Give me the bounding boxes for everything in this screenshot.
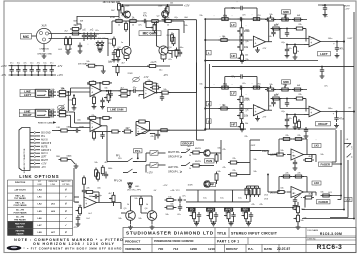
svg-text:DATE: DATE	[264, 247, 272, 251]
connector XLR mic	[32, 24, 52, 51]
resistor R46	[292, 88, 303, 91]
wire q4 emitter	[161, 55, 166, 63]
svg-text:-17V: -17V	[163, 75, 168, 77]
capacitor C6 47u	[142, 15, 149, 24]
ground diode	[98, 48, 103, 53]
label -17V rail L	[1, 74, 63, 77]
wire REV gnd	[246, 219, 251, 222]
ground right1	[285, 123, 290, 128]
resistor R51c	[122, 126, 133, 133]
pot VR10 mid right	[265, 85, 276, 91]
pot VR5bb	[238, 121, 244, 132]
capacitor C REV	[249, 212, 253, 219]
net label RIGHT in	[270, 192, 279, 195]
pot VR15 pan R	[294, 213, 301, 229]
svg-text:REV: REV	[243, 208, 248, 211]
wire right row2	[271, 98, 280, 100]
pot VR12 pfl	[76, 205, 82, 216]
wire bus x341	[338, 130, 342, 200]
wire channel bus y60	[205, 60, 318, 62]
label LK eqb2	[206, 101, 211, 106]
op-amp U7 right out	[309, 106, 321, 117]
svg-text:700: 700	[158, 247, 163, 251]
table row LK6	[14, 215, 68, 221]
label PAN	[205, 159, 215, 163]
label LK5 note	[127, 190, 142, 192]
resistor R55	[140, 196, 143, 207]
svg-text:LEFT: LEFT	[320, 52, 328, 56]
resistor R38 fb left	[294, 27, 305, 30]
wire bus x336	[332, 130, 336, 162]
resistor R14	[172, 35, 175, 46]
wire eqa top loop	[224, 8, 258, 20]
capacitor C15b	[49, 93, 56, 97]
capacitor C30	[285, 115, 289, 124]
note line1	[14, 238, 124, 242]
capacitor C4 mic	[92, 33, 96, 40]
junction bus dots	[204, 39, 355, 130]
svg-text:+48 / 17V: +48 / 17V	[170, 190, 180, 192]
svg-text:1208: 1208	[190, 247, 197, 251]
svg-text:10k: 10k	[244, 45, 249, 49]
svg-text:GROUP: GROUP	[182, 142, 192, 146]
label PFL ON	[114, 181, 123, 183]
wire u3b out	[148, 129, 207, 131]
wire lr join	[68, 112, 90, 128]
op-amp U4	[253, 36, 265, 47]
wire to r51	[52, 130, 61, 132]
op-amp U10 pfl	[84, 197, 97, 208]
resistor R59 mute	[186, 149, 201, 154]
svg-text:-17V: -17V	[73, 227, 78, 229]
svg-text:22-07-97: 22-07-97	[277, 247, 290, 251]
wire pfl in	[83, 186, 85, 198]
wire eqb top loop	[224, 77, 258, 89]
capacitor C16b	[49, 113, 56, 117]
capacitor C23b left	[285, 28, 289, 37]
resistor R9	[163, 16, 174, 23]
logo studiomaster	[7, 246, 22, 251]
resistor R51e	[159, 129, 170, 132]
svg-text:100R: 100R	[188, 185, 193, 187]
svg-text:RIGHT: RIGHT	[23, 113, 32, 117]
capacitor C10 decouple	[16, 63, 20, 76]
ground u4	[255, 47, 267, 52]
svg-text:LEFT: LEFT	[24, 93, 31, 97]
pin 7 AUX 4	[30, 152, 48, 155]
pin 10 +17V	[30, 163, 47, 166]
svg-text:PFL: PFL	[116, 155, 121, 157]
wire phantom feed	[77, 16, 119, 29]
capacitor C25 out	[333, 41, 344, 52]
label +17V rail L	[1, 65, 63, 68]
wire vr4a	[241, 18, 243, 26]
resistor R u1g	[93, 95, 96, 106]
label LF eqa	[230, 23, 236, 27]
pin 11 -17V	[30, 166, 46, 169]
svg-text:LINK: LINK	[37, 184, 42, 186]
svg-text:-17V: -17V	[144, 77, 149, 79]
label LK eqa	[206, 50, 211, 55]
resistor R10 top	[166, 4, 169, 15]
op-amp U2 line right	[90, 120, 102, 132]
resistor Rmb	[240, 102, 243, 113]
svg-text:PAN PRE: PAN PRE	[16, 230, 25, 233]
svg-text:PRE FADER: PRE FADER	[14, 218, 26, 221]
switch insert B	[347, 154, 353, 158]
wire pan wires	[200, 153, 214, 185]
resistor R12	[113, 37, 116, 48]
wire diode gnd	[98, 48, 102, 50]
label LEFT out	[318, 52, 331, 56]
capacitor C AUX1	[214, 212, 218, 219]
title company	[126, 231, 214, 236]
svg-text:RIGHT: RIGHT	[318, 122, 328, 126]
resistor R33b	[251, 86, 262, 89]
component value labels 2	[56, 6, 353, 221]
svg-text:RIGHT PFL: RIGHT PFL	[168, 152, 181, 154]
svg-text:R1C6-3: R1C6-3	[317, 244, 342, 251]
label LK6	[312, 181, 321, 185]
svg-text:GROUP-R: GROUP-R	[168, 157, 179, 159]
svg-text:XLR: XLR	[41, 24, 46, 28]
wire right bus B	[353, 12, 355, 196]
title drn	[226, 247, 239, 251]
resistor R19v	[73, 94, 76, 107]
table row LK4	[14, 188, 68, 192]
label PFL	[134, 149, 143, 153]
wire mic gain row	[112, 20, 165, 22]
wire pfl feed	[107, 132, 123, 162]
ground left2	[293, 55, 298, 60]
resistor R33a	[251, 18, 262, 21]
component value labels	[51, 2, 333, 222]
resistor R15	[175, 48, 178, 59]
switch line sense	[137, 130, 155, 140]
svg-text:PRODUCT: PRODUCT	[125, 239, 140, 243]
resistor R5 phantom	[70, 32, 81, 35]
resistor R34a	[219, 35, 230, 42]
diode D1	[96, 41, 100, 48]
resistor R36	[292, 18, 303, 21]
label MIC GAIN	[139, 31, 161, 36]
resistor R24	[119, 89, 130, 92]
svg-text:PFL: PFL	[135, 149, 141, 153]
resistor R3 input	[69, 36, 72, 47]
resistor R17	[57, 87, 68, 94]
svg-text:+17V: +17V	[345, 8, 351, 10]
label FD	[188, 208, 195, 212]
wire eqa row3	[204, 60, 246, 62]
capacitor C39	[104, 172, 108, 179]
svg-text:+: +	[145, 92, 147, 96]
wire left row1	[271, 19, 307, 21]
wire bus x209	[209, 64, 211, 129]
resistor R18	[57, 94, 68, 97]
wire mid link A	[285, 14, 287, 20]
connector 26-way IDC	[19, 122, 56, 174]
capacitor C FD	[197, 212, 201, 219]
connector line left jack	[36, 89, 50, 97]
capacitor C21a	[238, 17, 245, 21]
title versions val	[158, 247, 215, 251]
wire mic row to q	[105, 21, 112, 56]
wire u9	[279, 177, 312, 193]
diode D2	[100, 41, 104, 48]
capacitor C13 decouple	[36, 63, 40, 76]
resistor R61	[215, 153, 218, 164]
title versions	[125, 247, 141, 251]
resistor R58	[97, 171, 100, 182]
svg-text:47u: 47u	[37, 63, 40, 65]
capacitor C34 pfl	[82, 188, 86, 195]
svg-text:47u: 47u	[10, 63, 13, 65]
wire eqb row2	[204, 108, 252, 110]
svg-text:+17V: +17V	[163, 185, 169, 187]
capacitor C38	[178, 204, 182, 211]
pin 2 PFL	[30, 135, 46, 138]
pot VR3b gang	[132, 77, 149, 83]
op-amp U3 line gain	[144, 87, 156, 99]
transistor Q3	[122, 46, 131, 55]
pot VR5b	[237, 110, 249, 121]
ground REV	[246, 221, 251, 226]
wire led	[127, 182, 133, 184]
ground right2	[293, 125, 298, 130]
wire r16	[95, 66, 103, 70]
svg-text:LK5 ON = PFL: LK5 ON = PFL	[127, 190, 142, 192]
svg-text:FD: FD	[190, 208, 194, 211]
pin 8 LEFT	[30, 156, 47, 159]
svg-text:LK6: LK6	[314, 181, 319, 185]
svg-text:6k8: 6k8	[74, 24, 79, 27]
pot VR14 pan L	[294, 202, 300, 215]
resistor R52	[59, 158, 72, 161]
svg-text:PAN: PAN	[206, 159, 212, 163]
resistor R54 fb	[84, 191, 99, 203]
wire mic pin2	[49, 33, 67, 35]
svg-text:LED: LED	[135, 186, 140, 188]
resistor R1 48V feed	[118, 1, 125, 12]
wire q3 base	[114, 49, 122, 51]
wire mic pin3	[49, 38, 67, 40]
resistor R76 net	[257, 186, 260, 197]
wire swA to recA	[134, 153, 166, 162]
resistor R39	[294, 45, 297, 56]
capacitor C29b right	[285, 98, 289, 107]
svg-text:+17V: +17V	[1, 65, 7, 68]
svg-text:+: +	[91, 125, 93, 129]
capacitor C23 left	[271, 29, 275, 37]
ground u8	[293, 166, 298, 171]
wire 48V filter drop	[103, 2, 121, 17]
wire left row1 up	[285, 14, 287, 16]
wire buf fb row B	[279, 176, 307, 178]
resistor R72	[303, 196, 314, 199]
ground c31	[334, 123, 339, 128]
pot VR5ba	[238, 53, 244, 64]
wire u5 out	[321, 41, 345, 43]
resistor R28	[147, 65, 168, 77]
svg-text:POWERHOUSE VISION / HORIZON: POWERHOUSE VISION / HORIZON	[154, 240, 194, 243]
resistor R70	[293, 175, 304, 178]
capacitor C9 decouple	[10, 63, 14, 76]
resistor R30 out	[160, 91, 171, 94]
switch PFL a	[123, 158, 137, 162]
resistor R8	[150, 20, 161, 23]
resistor R22 fb	[87, 116, 100, 125]
note line3	[24, 247, 123, 251]
resistor R77 lk	[321, 192, 333, 197]
svg-text:LK5: LK5	[314, 143, 319, 147]
ground u1g	[92, 104, 97, 109]
svg-text:STEREO INPUT CIRCUIT: STEREO INPUT CIRCUIT	[231, 232, 278, 236]
op-amp U8 bus left	[291, 149, 304, 160]
ground q6	[150, 225, 155, 230]
capacitor C12 decouple	[30, 63, 34, 76]
resistor R69	[281, 175, 292, 178]
capacitor C42 top	[304, 127, 308, 134]
wire eqb fb row	[204, 87, 268, 89]
svg-text:47u: 47u	[339, 116, 344, 120]
label LEFT net	[205, 183, 216, 187]
wire vr4b	[241, 87, 243, 95]
wire u8 to fader	[312, 155, 342, 165]
pot VR11 mid right2	[280, 85, 291, 91]
pin 9 RIGHT	[30, 159, 49, 162]
pot VR1 mic gain	[150, 22, 156, 33]
pot VR3 dual gang	[57, 105, 65, 111]
title name	[231, 232, 278, 236]
label LINE LEFT	[20, 89, 35, 97]
svg-text:PAN: PAN	[301, 208, 306, 211]
resistor R57	[165, 206, 176, 209]
svg-text:+: +	[310, 111, 312, 115]
pot VR2 line gain	[104, 90, 110, 103]
resistor R60 mute	[191, 164, 202, 167]
resistor R11	[125, 21, 128, 32]
label MIC	[21, 34, 32, 40]
wire gain bus left	[129, 21, 131, 46]
svg-text:POST FADER: POST FADER	[14, 204, 27, 207]
wire vr5a	[241, 52, 243, 56]
svg-text:AUX 8: AUX 8	[41, 138, 48, 141]
resistor R29	[150, 86, 161, 89]
wire bus return A	[302, 190, 345, 210]
wire buf to pan	[305, 155, 312, 197]
svg-text:LINK: LINK	[51, 184, 56, 186]
ground c25	[335, 53, 340, 58]
switch mute L	[181, 149, 191, 153]
transistor Q2	[162, 11, 169, 18]
wire right bus A	[318, 5, 345, 190]
wire swB to recB	[146, 165, 166, 173]
title pa	[248, 247, 254, 251]
capacitor C29 right	[271, 99, 275, 107]
pot VR6 mid left	[265, 15, 276, 21]
capacitor C8	[178, 50, 182, 57]
svg-text:LEFT: LEFT	[206, 183, 213, 187]
ground r52	[74, 164, 79, 169]
table row LK1	[14, 194, 68, 200]
svg-text:+17V: +17V	[147, 173, 153, 175]
transistor Q6	[147, 211, 157, 221]
label RIGHT out	[316, 122, 331, 126]
wire fader bus2	[186, 201, 249, 203]
svg-text:-17V: -17V	[262, 117, 267, 119]
resistor R51b	[110, 130, 121, 133]
wire vr5b	[241, 120, 243, 124]
svg-text:+: +	[310, 41, 312, 45]
svg-text:SIG GND: SIG GND	[41, 133, 51, 135]
wire eqa fb row	[204, 18, 268, 20]
wire pfl drop	[137, 153, 139, 159]
wire left fb	[280, 29, 306, 42]
resistor R19 fb	[87, 81, 101, 85]
wire +17V mic rail	[119, 4, 190, 7]
resistor R31a	[220, 14, 231, 21]
capacitor C41	[293, 197, 297, 204]
svg-text:VERSIONS: VERSIONS	[125, 247, 141, 251]
ground pfl1	[73, 222, 80, 230]
capacitor C5 gnd	[78, 43, 82, 51]
wire q6 net	[151, 204, 153, 224]
resistor R34b	[219, 103, 230, 110]
label LK5	[312, 143, 321, 147]
wire u6 fb	[266, 88, 272, 111]
capacitor C21b	[238, 85, 245, 89]
label GROUP	[181, 142, 194, 146]
resistor R19b fb	[100, 81, 112, 90]
svg-text:R1C6-3.00M: R1C6-3.00M	[320, 232, 342, 236]
svg-text:47u: 47u	[143, 15, 148, 18]
svg-text:+17V: +17V	[184, 5, 190, 7]
op-amp U6	[253, 105, 265, 116]
pin 5 MUTE	[30, 145, 48, 148]
svg-text:+17V: +17V	[41, 164, 47, 166]
svg-text:PART 1 OF 1: PART 1 OF 1	[217, 239, 239, 243]
svg-text:DRN BY: DRN BY	[226, 247, 239, 251]
resistor R62	[215, 172, 218, 185]
capacitor C14 decouple	[43, 63, 47, 76]
ground q5	[128, 225, 133, 230]
ground q3	[112, 57, 121, 62]
svg-text:4k7: 4k7	[125, 126, 130, 130]
svg-text:* = FIT COMPONENT WITH BODY 3M: * = FIT COMPONENT WITH BODY 3MM OFF BOAR…	[24, 247, 123, 251]
svg-text:LEFT: LEFT	[41, 157, 47, 159]
switch insert A	[344, 144, 352, 148]
svg-text:DWG No: DWG No	[308, 238, 317, 240]
svg-text:FADER: FADER	[319, 200, 328, 204]
title date lbl	[264, 247, 272, 251]
label HF eqa	[230, 54, 236, 58]
title block grid	[123, 228, 356, 253]
pot VR4a	[237, 26, 250, 37]
capacitor C u1out	[109, 90, 113, 98]
svg-text:HF: HF	[231, 122, 235, 126]
ground c42	[304, 134, 309, 139]
resistor Rc1	[121, 4, 124, 15]
wire eqa row2	[204, 39, 252, 41]
svg-text:AUX 4: AUX 4	[41, 152, 48, 155]
ground u9	[293, 203, 298, 208]
svg-text:10u: 10u	[43, 63, 46, 65]
svg-text:FITTED: FITTED	[63, 184, 71, 186]
svg-text:GROUP 4: GROUP 4	[41, 150, 52, 152]
net label LEFT pfl	[168, 167, 182, 174]
svg-text:REV + AC: REV + AC	[15, 201, 25, 204]
svg-text:1216: 1216	[208, 247, 215, 251]
